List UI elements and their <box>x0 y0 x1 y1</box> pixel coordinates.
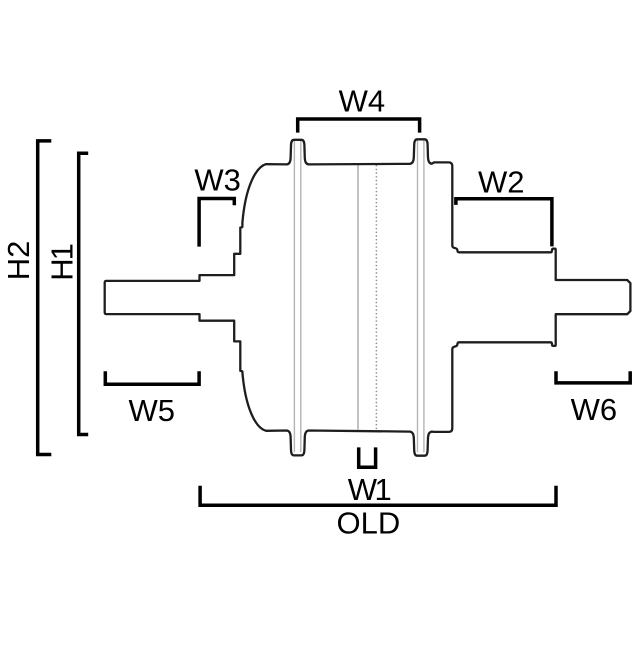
svg-text:W6: W6 <box>571 392 618 427</box>
svg-text:OLD: OLD <box>337 506 401 541</box>
svg-text:W3: W3 <box>194 162 241 197</box>
svg-text:W4: W4 <box>339 83 386 118</box>
svg-text:W1: W1 <box>348 472 391 507</box>
svg-text:W5: W5 <box>128 393 175 428</box>
svg-text:W2: W2 <box>478 165 525 200</box>
svg-text:H2: H2 <box>1 241 36 281</box>
svg-text:H1: H1 <box>45 244 80 280</box>
